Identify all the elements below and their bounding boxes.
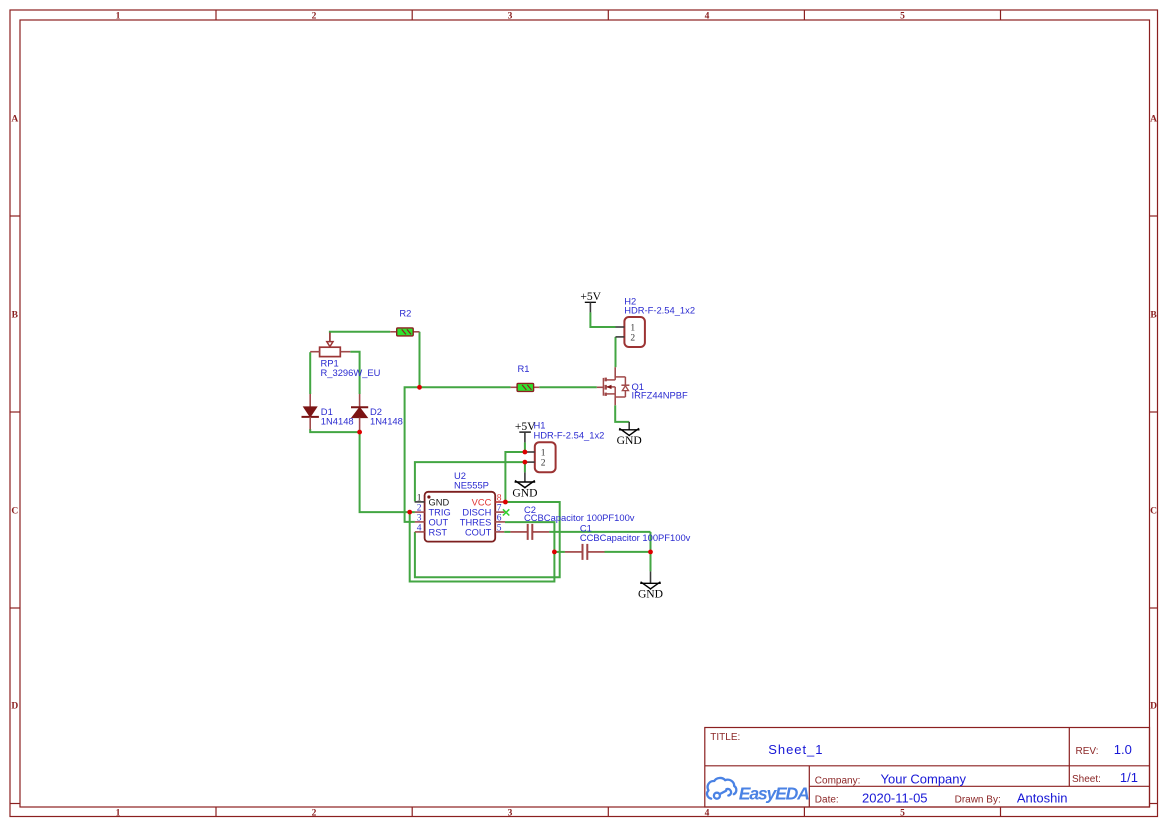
wire VCC node to H1 pin1 [505, 452, 527, 502]
resistor R2 [390, 307, 419, 336]
potentiometer RP1 [310, 333, 380, 378]
wire D2 anode to node B [359, 430, 361, 433]
svg-text:C: C [1150, 507, 1157, 517]
ground at C1 right [638, 571, 663, 600]
diode D1 1N4148 [302, 394, 354, 430]
wire node A to R1 left [420, 386, 511, 388]
svg-text:7: 7 [497, 503, 502, 513]
svg-text:1/1: 1/1 [1120, 770, 1138, 785]
svg-text:2: 2 [312, 808, 317, 818]
svg-text:Sheet:: Sheet: [1072, 774, 1101, 785]
wire U2 pin1 GND to H1 pin2 [415, 462, 525, 501]
resistor R1 [511, 363, 540, 392]
svg-text:Sheet_1: Sheet_1 [768, 742, 823, 757]
svg-text:2: 2 [417, 503, 422, 513]
wire R2 right down to node A [419, 332, 421, 388]
svg-text:REV:: REV: [1076, 746, 1099, 757]
U2 pin 2 TRIG [415, 503, 451, 517]
power flag +5V at H2 [580, 290, 601, 313]
svg-text:CCBCapacitor 100PF100v: CCBCapacitor 100PF100v [580, 532, 691, 543]
svg-text:1N4148: 1N4148 [321, 416, 354, 427]
svg-text:THRES: THRES [460, 517, 492, 527]
svg-text:8: 8 [497, 493, 502, 503]
svg-text:D: D [11, 702, 18, 712]
wire D1 cathode to node B [310, 429, 359, 432]
svg-text:1.0: 1.0 [1114, 742, 1132, 757]
svg-text:+5V: +5V [515, 420, 536, 433]
svg-text:5: 5 [497, 523, 502, 533]
junction node B [357, 430, 362, 435]
junction node E C1 right [648, 550, 653, 555]
svg-text:EasyEDA: EasyEDA [739, 783, 809, 803]
svg-text:6: 6 [497, 513, 502, 523]
svg-text:2: 2 [312, 12, 317, 22]
svg-text:GND: GND [617, 434, 642, 447]
svg-text:TRIG: TRIG [429, 508, 451, 518]
svg-text:1N4148: 1N4148 [370, 416, 403, 427]
svg-text:1: 1 [116, 808, 121, 818]
svg-text:1: 1 [630, 324, 635, 334]
svg-text:C: C [11, 507, 18, 517]
wire Q1 source to GND [615, 405, 629, 422]
svg-text:2: 2 [541, 459, 546, 469]
svg-text:COUT: COUT [465, 527, 492, 537]
wire RP1 wiper to R2 left [330, 332, 390, 333]
wire C1 right to node E [605, 551, 651, 553]
svg-text:Date:: Date: [815, 794, 839, 805]
diode D2 1N4148 [351, 394, 403, 430]
capacitor C1 [565, 523, 691, 560]
svg-text:GND: GND [429, 497, 450, 507]
svg-text:HDR-F-2.54_1x2: HDR-F-2.54_1x2 [534, 430, 605, 441]
wire H2 pin2 down to Q1 drain [615, 337, 617, 367]
junction TRIG node [407, 510, 412, 515]
svg-text:2: 2 [630, 334, 635, 344]
U2 pin 3 OUT [415, 513, 449, 527]
svg-text:R2: R2 [399, 307, 411, 318]
wire RP1 left to D1 anode [309, 352, 311, 394]
svg-text:Your Company: Your Company [881, 771, 967, 786]
title block [705, 728, 1150, 808]
svg-text:5: 5 [900, 808, 905, 818]
svg-text:3: 3 [508, 808, 513, 818]
svg-text:A: A [1150, 115, 1157, 125]
svg-text:3: 3 [508, 12, 513, 22]
svg-text:Company:: Company: [815, 775, 861, 786]
svg-text:RST: RST [429, 527, 448, 537]
svg-text:GND: GND [638, 587, 663, 600]
junction H1 pin2 node [523, 460, 528, 465]
svg-text:1: 1 [116, 12, 121, 22]
op-amp U2 NE555P body [425, 470, 496, 542]
wire U2 pin5 to C2 left [504, 531, 510, 533]
svg-text:4: 4 [705, 12, 710, 22]
EasyEDA logo [707, 778, 736, 799]
junction node D C1 left [552, 550, 557, 555]
junction VCC node [503, 500, 508, 505]
svg-text:IRFZ44NPBF: IRFZ44NPBF [632, 389, 689, 400]
wire node A to U2 pin3 OUT [405, 387, 420, 522]
svg-text:R1: R1 [518, 363, 530, 374]
wire C2 right across [549, 531, 650, 533]
svg-text:GND: GND [512, 486, 537, 499]
U2 pin 7 DISCH no-connect [462, 503, 509, 517]
svg-text:D: D [1150, 702, 1157, 712]
U2 pin 6 THRES [460, 513, 505, 527]
svg-text:4: 4 [417, 523, 422, 533]
wire RP1 right to D2 cathode [350, 352, 359, 394]
header H2 HDR-F-2.54_1x2 [616, 295, 696, 347]
power flag +5V at H1 [515, 420, 536, 442]
svg-text:A: A [11, 115, 18, 125]
U2 pin 5 COUT [465, 523, 504, 537]
U2 pin 8 VCC [472, 493, 506, 507]
ground at H1 pin2 [512, 472, 537, 499]
transistor Q1 IRFZ44NPBF [597, 367, 688, 405]
U2 pin 1 GND [415, 493, 450, 507]
svg-text:Drawn By:: Drawn By: [955, 794, 1001, 805]
svg-text:OUT: OUT [429, 517, 449, 527]
svg-text:5: 5 [900, 12, 905, 22]
svg-text:VCC: VCC [472, 497, 492, 507]
svg-text:1: 1 [417, 493, 422, 503]
wire +5V H2 to H2 pin1 [590, 312, 615, 327]
svg-text:4: 4 [705, 808, 710, 818]
wire +5V H1 down [524, 442, 526, 452]
junction H1 pin1 node [523, 450, 528, 455]
svg-text:+5V: +5V [580, 290, 601, 303]
U2 pin 4 RST [415, 523, 448, 537]
svg-text:NE555P: NE555P [454, 479, 489, 490]
junction node A [417, 385, 422, 390]
wire node B down to U2 pin2 TRIG [360, 432, 415, 512]
wire U2 pin4 RST to VCC pin8 [415, 502, 560, 577]
ground at Q1 source [617, 422, 642, 447]
wire TRIG node down around to THRES pin6 [410, 512, 555, 581]
header H1 HDR-F-2.54_1x2 [527, 420, 604, 473]
wire R1 right to Q1 gate [539, 386, 597, 388]
svg-text:B: B [1150, 311, 1157, 321]
svg-text:3: 3 [417, 513, 422, 523]
svg-text:DISCH: DISCH [462, 508, 491, 518]
wire C2 right down to node E [650, 532, 652, 572]
svg-text:R_3296W_EU: R_3296W_EU [321, 367, 381, 378]
svg-text:2020-11-05: 2020-11-05 [862, 790, 928, 805]
wire H1 pin2 node to GND stem [525, 461, 527, 463]
capacitor C2 [510, 504, 634, 540]
svg-text:B: B [12, 311, 19, 321]
svg-text:TITLE:: TITLE: [710, 732, 740, 743]
svg-text:Antoshin: Antoshin [1017, 790, 1068, 805]
svg-text:1: 1 [541, 449, 546, 459]
svg-text:HDR-F-2.54_1x2: HDR-F-2.54_1x2 [624, 305, 695, 316]
wire C1 left to node D [554, 551, 565, 553]
